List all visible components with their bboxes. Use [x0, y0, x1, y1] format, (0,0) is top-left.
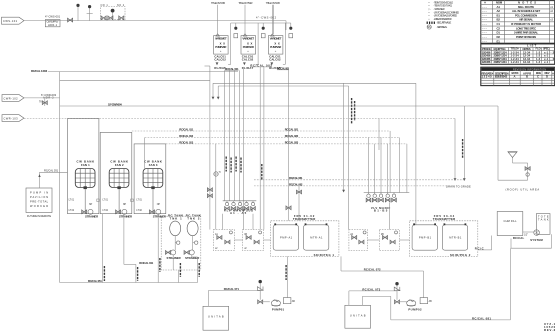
svg-text:AB: AB — [292, 300, 295, 303]
svg-text:‒ ‒ ‒: ‒ ‒ ‒ — [482, 27, 488, 30]
svg-text:PUMPVAR: PUMPVAR — [270, 45, 281, 49]
legend list — [426, 0, 459, 29]
wire left main riser x59.6 — [59, 72, 61, 283]
svg-text:RC/CAL 041: RC/CAL 041 — [139, 261, 153, 265]
svg-text:UNITAB: UNITAB — [350, 314, 366, 318]
notes table T1 — [481, 1, 555, 44]
valve V-401 pit — [525, 167, 530, 177]
wire drain drop x455 — [454, 119, 457, 182]
chiller unit U-1 — [211, 1, 238, 70]
svg-text:FUTURE IN REMOTE: FUTURE IN REMOTE — [27, 214, 51, 218]
wire riser x299 — [296, 186, 301, 221]
heater unit H-1 — [203, 306, 229, 330]
svg-text:‒ ‒ ‒: ‒ ‒ ‒ — [482, 14, 488, 17]
svg-text:PMP-A1: PMP-A1 — [280, 236, 293, 240]
svg-text:SKID/PKG 2: SKID/PKG 2 — [450, 253, 471, 257]
wire to pump PG-1 — [263, 301, 270, 303]
svg-text:C: C — [537, 75, 539, 79]
svg-text:PUMPVAR: PUMPVAR — [243, 45, 254, 49]
svg-text:PUMP01: PUMP01 — [272, 307, 285, 311]
svg-text:VLV MANIFOLD: VLV MANIFOLD — [224, 208, 253, 212]
chem pump CP-1 — [534, 230, 540, 236]
cooling fan CF-3 — [136, 160, 166, 219]
svg-text:TRANSMITTER: TRANSMITTER — [433, 217, 455, 221]
svg-text:RC/CAL 081: RC/CAL 081 — [472, 316, 491, 320]
wire cell1 drain x102.7 — [103, 214, 105, 283]
svg-text:LT 01: LT 01 — [103, 199, 109, 202]
wire riser SP-1 to skid1 — [286, 256, 287, 297]
svg-text:RC/CAL 073: RC/CAL 073 — [362, 287, 380, 291]
off-page connector CWS-1 — [2, 17, 25, 24]
manifold M2 risers — [369, 138, 388, 193]
pump skid SK-1 — [271, 214, 339, 257]
svg-text:- WIRE AT OPERATOR: - WIRE AT OPERATOR — [434, 17, 452, 21]
svg-text:TNK 2: TNK 2 — [187, 216, 200, 220]
valve V-102 on stub — [39, 98, 47, 106]
wire y71.6 — [48, 71, 238, 73]
wire A2-skid1 link — [264, 239, 271, 241]
wire skid drain x178.7 — [179, 263, 181, 283]
svg-text:RC/CAL 012: RC/CAL 012 — [179, 134, 193, 138]
svg-text:VARIOMET: VARIOMET — [215, 36, 227, 40]
wire M2 stem to A4 — [388, 202, 390, 229]
off-page connector CWR-2 — [2, 115, 24, 122]
svg-text:RC/CAL 013: RC/CAL 013 — [179, 141, 193, 145]
wire riser x288.5 — [286, 70, 291, 221]
valve V-202 — [207, 194, 212, 198]
wire stub U-1 left — [205, 65, 210, 67]
svg-text:1-2: 1-2 — [536, 60, 541, 64]
chiller unit U-2 — [238, 1, 265, 70]
svg-text:1/2": 1/2" — [524, 234, 528, 237]
manifold M1 header — [223, 201, 257, 215]
svg-text:12/3456: 12/3456 — [482, 60, 491, 64]
svg-text:RC/CAL 061: RC/CAL 061 — [289, 176, 303, 180]
tote tank box — [536, 214, 550, 235]
svg-text:A: A — [514, 75, 516, 79]
wire main supply header y20.6 — [24, 20, 286, 22]
bypass assembly A4 — [379, 230, 399, 251]
svg-text:LT 02: LT 02 — [136, 209, 142, 212]
wire y80.3 — [60, 79, 210, 81]
pump PG-2 — [407, 300, 422, 312]
wire bus B4 y137.5 dashed — [145, 134, 400, 192]
svg-text:10"-CWR-004: 10"-CWR-004 — [108, 102, 122, 106]
chem enclosure — [511, 234, 552, 248]
svg-text:CWR-102: CWR-102 — [4, 96, 19, 100]
pump P-2 — [184, 250, 199, 260]
wire drop to SP-2 — [423, 271, 425, 298]
svg-text:12-34: 12-34 — [523, 60, 531, 64]
svg-text:‒ ‒ ‒: ‒ ‒ ‒ — [482, 23, 488, 26]
svg-text:PUMP02: PUMP02 — [408, 307, 422, 311]
funnel drain FD-1 — [508, 152, 528, 164]
svg-text:PUMPVAR: PUMPVAR — [215, 45, 226, 49]
svg-text:LT 02: LT 02 — [103, 209, 109, 212]
valve V-502 — [394, 300, 399, 304]
control line pair y185.9 — [254, 182, 455, 186]
wire chem box to pump — [523, 232, 534, 237]
instrument LI-1 — [175, 241, 180, 244]
wire riser x209.9 — [209, 66, 211, 230]
svg-text:ISSUE 00-00: ISSUE 00-00 — [495, 75, 508, 79]
svg-text:- SPANNER: - SPANNER — [434, 7, 445, 11]
svg-text:MTR-B1: MTR-B1 — [449, 236, 462, 240]
seal pot SP-2 — [420, 298, 432, 304]
wire A1-A2 link — [234, 239, 242, 241]
svg-text:‒ ‒ ‒: ‒ ‒ ‒ — [482, 6, 488, 9]
svg-text:PAVILION: PAVILION — [30, 195, 48, 199]
svg-text:RC/C: RC/C — [475, 246, 484, 250]
line label box LB1 — [45, 14, 61, 27]
svg-text:LT 01: LT 01 — [136, 199, 142, 202]
svg-text:RC/CAL: RC/CAL — [513, 236, 525, 240]
svg-text:RC/CAL 051: RC/CAL 051 — [88, 279, 102, 283]
svg-text:CALC02: CALC02 — [214, 57, 226, 61]
wire A4-skid2 link — [400, 239, 410, 241]
svg-text:CWR-103: CWR-103 — [4, 117, 19, 121]
svg-text:AB: AB — [429, 300, 432, 303]
bypass assembly A3 — [349, 230, 367, 251]
svg-text:RC/CAL 011: RC/CAL 011 — [179, 128, 193, 132]
svg-text:RC/CAL 022: RC/CAL 022 — [285, 134, 299, 138]
equipment table T2 — [481, 44, 555, 65]
wire riser pair x260.2/263.9 — [260, 67, 264, 230]
svg-text:REV.2: REV.2 — [544, 328, 555, 332]
wire bus B2 y118.5 dashed — [24, 118, 455, 120]
instrument stub PI-1 — [76, 4, 79, 21]
svg-text:CALC02: CALC02 — [242, 57, 254, 61]
wire drop to pit x498 — [497, 106, 499, 180]
wire H-2 drain loop — [362, 296, 390, 320]
manifold M1 risers — [225, 70, 241, 200]
chiller unit U-3 — [266, 1, 293, 70]
svg-text:LT 01: LT 01 — [69, 199, 75, 202]
svg-text:‒ ‒ ‒: ‒ ‒ ‒ — [482, 36, 488, 39]
wire M1 stem to A2 — [252, 214, 254, 230]
wire cell3 drain x158.2 — [158, 214, 160, 283]
wire header B6 y83.3 — [212, 83, 416, 225]
wire H-2 feed — [349, 287, 397, 305]
wire secondary header y23 — [231, 22, 291, 24]
svg-text:(ROOF) UTIL AREA: (ROOF) UTIL AREA — [506, 188, 540, 192]
svg-text:NP: NP — [157, 203, 161, 206]
svg-text:RC/CAL 021: RC/CAL 021 — [285, 128, 299, 132]
wire bus B1 y106 — [60, 102, 498, 106]
check valve CK-2 — [394, 285, 400, 299]
svg-text:VARIOMET: VARIOMET — [242, 36, 254, 40]
pump P-1 — [165, 250, 180, 270]
svg-text:RC/CAL 062: RC/CAL 062 — [289, 182, 303, 186]
valve V-201 — [207, 188, 212, 192]
svg-text:TITLE ON TWR: TITLE ON TWR — [266, 1, 280, 5]
svg-text:B: B — [526, 75, 528, 79]
control line pair y179.8 — [254, 176, 464, 180]
svg-text:x-1: x-1 — [544, 60, 549, 64]
svg-text:12345: 12345 — [482, 75, 493, 79]
svg-text:SYSTEM: SYSTEM — [530, 238, 543, 242]
wire A3-A4 link — [367, 239, 379, 241]
svg-text:-2: -2 — [551, 57, 555, 61]
svg-text:PUMP IN: PUMP IN — [30, 191, 48, 195]
svg-text:23/867 1234: 23/867 1234 — [494, 60, 508, 64]
svg-text:POINT OF ISSUES: POINT OF ISSUES — [516, 35, 536, 39]
svg-text:MTR-A1: MTR-A1 — [310, 236, 323, 240]
instrument LI-2 — [193, 241, 198, 244]
svg-text:NP: NP — [123, 203, 127, 206]
seal pot SP-1 — [283, 298, 295, 304]
wire chem riser x510.4 — [509, 248, 511, 320]
heater unit H-2 — [345, 305, 371, 328]
svg-text:RC/CAL 023: RC/CAL 023 — [285, 141, 299, 145]
manifold M2 header — [364, 193, 410, 213]
svg-text:RC/CAL 072: RC/CAL 072 — [364, 268, 381, 272]
svg-text:RC/CAL 031: RC/CAL 031 — [44, 169, 59, 173]
wire skid drain x197.5 — [198, 257, 200, 283]
svg-text:CWS-101: CWS-101 — [3, 19, 18, 23]
node label under U-3 — [277, 67, 290, 71]
svg-text:- SLIP IN SEAL: - SLIP IN SEAL — [437, 25, 448, 29]
svg-text:‒ ‒ ‒: ‒ ‒ ‒ — [482, 10, 488, 13]
svg-text:‒ ‒ ‒: ‒ ‒ ‒ — [482, 19, 488, 22]
wire bottom return y319.9 — [391, 316, 511, 320]
chemical tank skid box — [161, 216, 201, 270]
svg-text:SKID/PKG 1: SKID/PKG 1 — [314, 253, 335, 257]
svg-text:CHM FILL: CHM FILL — [504, 219, 518, 223]
svg-text:HDR-1: HDR-1 — [48, 23, 58, 27]
cooling cell 3 box — [134, 144, 166, 214]
wire skid2 to chem — [475, 236, 492, 251]
cooling fan CF-1 — [69, 160, 100, 219]
wire connector2 line — [24, 97, 60, 99]
svg-text:STRAINER: STRAINER — [185, 256, 199, 260]
svg-text:STRAINER: STRAINER — [167, 256, 181, 260]
svg-text:PRE-TOTAL: PRE-TOTAL — [30, 200, 49, 204]
cooling fan CF-2 — [103, 160, 134, 219]
wire M1 stem to A1 — [222, 214, 224, 230]
svg-text:LT 02: LT 02 — [69, 209, 75, 212]
instrument stub TI-1 — [87, 5, 93, 21]
chem fill box — [497, 212, 523, 236]
wire riser x243.3 — [242, 67, 244, 230]
wire drain tee x464.3 — [463, 106, 466, 181]
node label riser x348.6 — [351, 98, 353, 124]
node label connector2 — [41, 93, 57, 100]
svg-text:HDR-2: HDR-2 — [44, 96, 55, 100]
wire header B7 y86 — [217, 86, 349, 230]
wire H-1 feed — [208, 287, 260, 306]
svg-text:STRAINER: STRAINER — [85, 214, 98, 218]
svg-text:‒ ‒ ‒: ‒ ‒ ‒ — [482, 32, 488, 35]
svg-text:UNITAB: UNITAB — [208, 315, 224, 319]
svg-text:NO 1: NO 1 — [101, 4, 109, 7]
wire header drop at x286 — [285, 21, 287, 30]
tank TK-2 — [186, 213, 201, 250]
valve V-101 — [68, 18, 73, 22]
svg-text:FAN 2: FAN 2 — [115, 163, 124, 167]
svg-text:FAN 1: FAN 1 — [81, 163, 90, 167]
svg-text:VARIOMET: VARIOMET — [270, 36, 282, 40]
wire to pump PG-2 — [400, 301, 408, 303]
wire bottom collector y282.5 — [60, 279, 198, 283]
node label under U-1 — [225, 67, 239, 71]
svg-text:RC/CAL 071: RC/CAL 071 — [224, 287, 240, 291]
cooling cell 2 box — [100, 132, 132, 213]
valve V-501 — [258, 300, 263, 304]
drawing stamp — [544, 322, 555, 332]
tank TK-1 — [168, 213, 183, 250]
svg-text:NP: NP — [89, 203, 93, 206]
flow meter cluster FE-1 — [101, 4, 126, 20]
wire cell2 drain jog — [124, 214, 154, 283]
drain pit — [498, 163, 528, 180]
svg-text:TITLE ON TWR: TITLE ON TWR — [211, 1, 225, 5]
wire cross line y271 — [341, 268, 424, 272]
svg-text:RC/CAL 0-003: RC/CAL 0-003 — [31, 69, 48, 73]
revisions table T3 — [481, 67, 555, 85]
svg-text:DRAIN TO GRADE: DRAIN TO GRADE — [446, 185, 471, 189]
svg-text:4"-CWS-001: 4"-CWS-001 — [45, 14, 61, 18]
bypass assembly A1 — [213, 230, 234, 251]
svg-text:1-2-34: 1-2-34 — [511, 60, 520, 64]
check valve CK-1 — [257, 283, 263, 300]
svg-text:TRANSMITTER: TRANSMITTER — [293, 217, 315, 221]
wire skid1 to cross line — [340, 256, 342, 271]
svg-text:TNK 1: TNK 1 — [170, 216, 183, 220]
svg-text:FAN 3: FAN 3 — [149, 163, 158, 167]
wire pump house feed — [38, 169, 67, 188]
cooling cell 1 box — [68, 119, 99, 214]
wire branch x343.6 — [342, 83, 345, 192]
vent VN-1 — [259, 280, 262, 283]
svg-text:2A: 2A — [350, 233, 353, 236]
pump skid SK-2 — [410, 214, 478, 257]
svg-text:TK: TK — [39, 101, 42, 104]
svg-text:D: D — [546, 75, 548, 79]
wire bus B3 y131 dashed — [132, 128, 390, 193]
wire bus B5 y143.9 dashed — [166, 141, 407, 193]
pump house box — [26, 188, 52, 218]
svg-text:TITLE ON TWR: TITLE ON TWR — [238, 1, 252, 5]
svg-text:STRAINER: STRAINER — [119, 214, 132, 218]
instrument TI-9 column — [214, 144, 221, 230]
bypass assembly A2 — [243, 230, 264, 251]
svg-text:SS: SS — [427, 25, 431, 29]
svg-text:- SECURITY VALVE: - SECURITY VALVE — [437, 20, 452, 24]
svg-text:‒ ‒ ‒: ‒ ‒ ‒ — [482, 40, 488, 43]
svg-text:PMP-B1: PMP-B1 — [419, 236, 432, 240]
node label under U-2 — [250, 64, 272, 68]
wire branch B2 to M2 — [378, 119, 380, 151]
pump PG-1 — [271, 300, 284, 312]
svg-text:▮▮▮▮: ▮▮▮▮ — [426, 20, 435, 24]
svg-text:A1 - A5: A1 - A5 — [230, 211, 247, 215]
vent VN-2 — [395, 282, 398, 285]
off-page connector CWR-1 — [2, 95, 24, 102]
svg-text:-2: -2 — [551, 50, 555, 54]
svg-text:NO 2: NO 2 — [117, 4, 125, 7]
svg-text:CALC02: CALC02 — [269, 57, 281, 61]
